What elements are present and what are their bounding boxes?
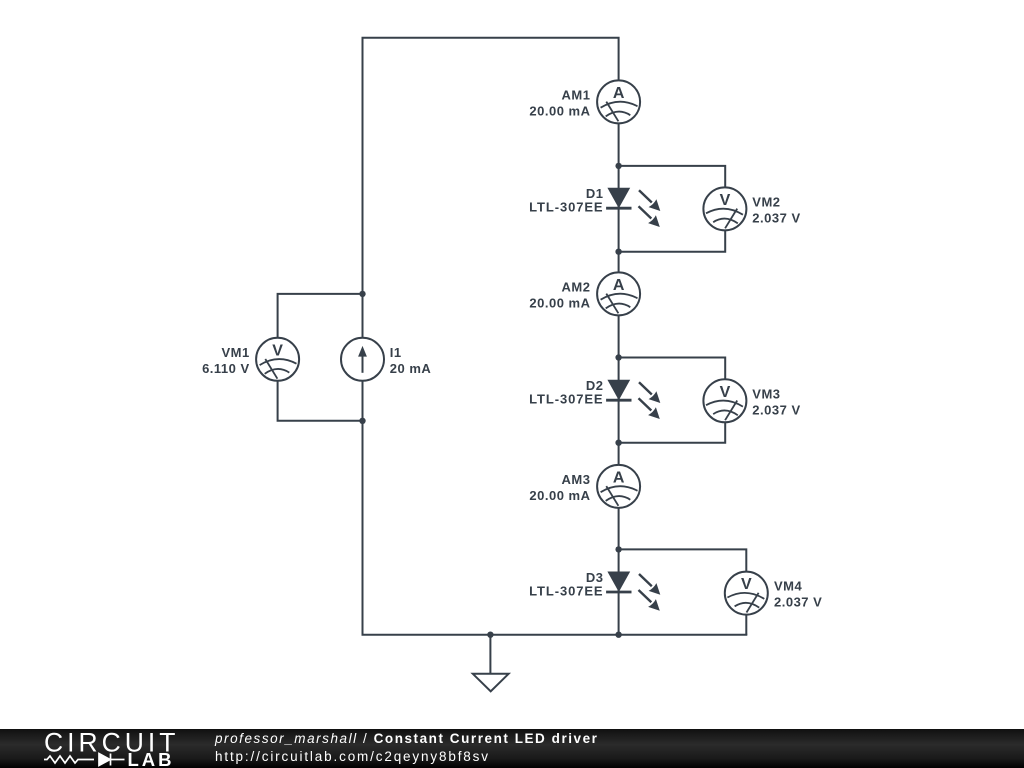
node D3 cathode junction [615,632,621,638]
node D1 cathode junction [615,249,621,255]
svg-text:V: V [720,384,731,401]
svg-text:A: A [613,469,625,486]
ammeter AM1 [529,80,640,123]
node D3 anode junction [615,546,621,552]
node D2 anode junction [615,354,621,360]
svg-text:VM2: VM2 [752,194,780,209]
voltmeter VM3 [703,379,800,422]
ground [473,635,509,692]
svg-text:LAB: LAB [128,749,175,768]
footer url text [215,749,490,764]
voltmeter VM1 [202,338,299,381]
svg-text:I1: I1 [390,345,402,360]
svg-text:2.037 V: 2.037 V [752,402,800,417]
svg-text:AM2: AM2 [562,279,591,294]
ammeter AM2 [529,272,640,315]
svg-text:V: V [741,576,752,593]
svg-text:20.00 mA: 20.00 mA [529,488,590,503]
svg-text:AM3: AM3 [562,472,591,487]
wire VM1 branch [278,294,363,421]
node ground junction [487,632,493,638]
wire bottom rail [362,634,748,636]
node D2 cathode junction [615,440,621,446]
svg-text:20.00 mA: 20.00 mA [529,103,590,118]
svg-text:AM1: AM1 [562,87,591,102]
svg-text:20 mA: 20 mA [390,361,432,376]
footer bar [0,729,1024,768]
ammeter AM3 [529,465,640,508]
svg-text:VM3: VM3 [752,386,780,401]
node VM1 bottom junction [359,418,365,424]
wire VM4 branch [619,549,747,634]
svg-text:LTL-307EE: LTL-307EE [529,584,603,599]
svg-text:2.037 V: 2.037 V [774,595,822,610]
LED D2 [529,378,660,419]
wire VM2 branch [619,166,726,252]
svg-text:LTL-307EE: LTL-307EE [529,200,603,215]
footer title text [215,731,598,746]
svg-text:VM1: VM1 [221,345,249,360]
LED D3 [529,570,660,611]
svg-text:20.00 mA: 20.00 mA [529,295,590,310]
current source I1 [341,338,431,381]
svg-text:VM4: VM4 [774,579,803,594]
svg-text:6.110 V: 6.110 V [202,361,250,376]
node D1 anode junction [615,163,621,169]
wire VM3 branch [619,358,726,443]
voltmeter VM2 [703,187,800,230]
svg-text:A: A [613,85,625,102]
svg-text:A: A [613,277,625,294]
wire left rail, top rail, right rail [363,38,619,635]
CircuitLab logo [0,729,200,768]
node VM1 top junction [359,291,365,297]
voltmeter VM4 [725,572,823,615]
svg-text:2.037 V: 2.037 V [752,210,800,225]
svg-text:LTL-307EE: LTL-307EE [529,392,603,407]
svg-text:V: V [720,192,731,209]
svg-text:V: V [272,342,283,359]
LED D1 [529,186,660,227]
